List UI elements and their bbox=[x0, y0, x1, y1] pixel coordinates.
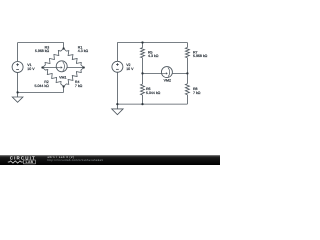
svg-text:5.044 kΩ: 5.044 kΩ bbox=[35, 84, 50, 88]
svg-text:4.3 kΩ: 4.3 kΩ bbox=[78, 49, 89, 53]
junction node D bbox=[62, 85, 64, 87]
svg-text:VM1: VM1 bbox=[59, 76, 66, 80]
wire bbox=[17, 72, 19, 92]
wire bbox=[43, 67, 84, 69]
junction bbox=[16, 91, 18, 93]
junction bbox=[141, 72, 143, 74]
resistor R3 bbox=[43, 49, 64, 68]
wire bbox=[186, 95, 188, 104]
resistor R2 bbox=[43, 68, 64, 87]
resistor R7 bbox=[185, 48, 189, 58]
voltage source V2 bbox=[112, 61, 123, 72]
svg-text:5.044 kΩ: 5.044 kΩ bbox=[146, 91, 161, 95]
wire bbox=[186, 58, 188, 74]
svg-text:http://circuitlab.com/c/nxk5vz: http://circuitlab.com/c/nxk5vza5a9e5 bbox=[47, 159, 103, 162]
svg-text:10 V: 10 V bbox=[126, 67, 134, 71]
voltmeter VM2 bbox=[161, 67, 172, 78]
wire bbox=[142, 58, 144, 74]
junction node B bbox=[41, 66, 43, 68]
voltmeter VM1 bbox=[56, 61, 67, 72]
junction bbox=[186, 72, 188, 74]
wire bbox=[142, 73, 144, 84]
junction bbox=[141, 103, 143, 105]
wire bbox=[142, 95, 144, 104]
wire bbox=[18, 42, 64, 44]
logo LAB box bbox=[24, 160, 36, 164]
wire bbox=[186, 73, 188, 83]
wire bbox=[143, 103, 188, 105]
svg-text:4.3 kΩ: 4.3 kΩ bbox=[148, 54, 159, 58]
junction bbox=[141, 41, 143, 43]
svg-text:VM2: VM2 bbox=[164, 78, 171, 82]
wire bbox=[63, 87, 65, 93]
wire bbox=[186, 43, 188, 48]
resistor R5 bbox=[141, 48, 145, 58]
wire bbox=[116, 43, 118, 62]
svg-text:7 kΩ: 7 kΩ bbox=[75, 84, 83, 88]
wire bbox=[143, 72, 188, 74]
junction node C bbox=[83, 66, 85, 68]
ground bbox=[17, 92, 19, 97]
wire bbox=[143, 42, 188, 44]
svg-text:5.968 kΩ: 5.968 kΩ bbox=[35, 49, 50, 53]
wire bbox=[117, 42, 142, 44]
wire bbox=[17, 43, 19, 63]
wire bbox=[63, 43, 65, 49]
junction bbox=[116, 103, 118, 105]
junction node A bbox=[62, 47, 64, 49]
svg-text:5.968 kΩ: 5.968 kΩ bbox=[193, 54, 208, 58]
resistor R4 bbox=[64, 68, 84, 87]
ground bbox=[116, 104, 118, 109]
logo resistor zigzag bbox=[8, 161, 23, 163]
svg-text:10 V: 10 V bbox=[27, 67, 35, 71]
svg-text:LAB: LAB bbox=[26, 160, 34, 164]
wire bbox=[117, 103, 142, 105]
resistor R6 bbox=[141, 84, 145, 95]
wire bbox=[116, 72, 118, 104]
resistor R1 bbox=[64, 49, 84, 68]
wire bbox=[142, 43, 144, 48]
svg-text:7 kΩ: 7 kΩ bbox=[193, 91, 201, 95]
resistor R8 bbox=[185, 84, 189, 95]
voltage source V1 bbox=[12, 62, 23, 73]
wire bbox=[18, 91, 64, 93]
